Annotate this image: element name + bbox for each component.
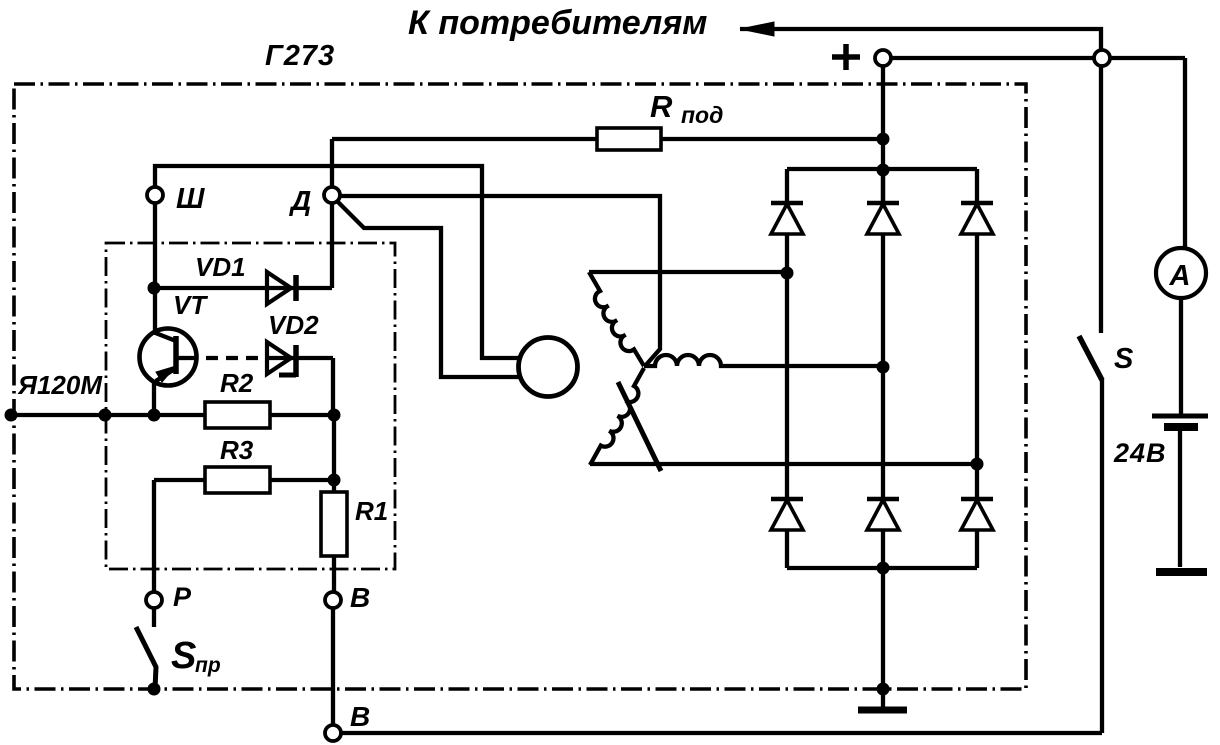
svg-text:под: под — [681, 102, 723, 128]
svg-text:S: S — [171, 635, 196, 677]
svg-text:А: А — [1169, 260, 1191, 292]
svg-text:VT: VT — [173, 290, 208, 320]
svg-text:пр: пр — [195, 654, 221, 677]
svg-text:Я120М: Я120М — [17, 370, 103, 400]
svg-text:В: В — [350, 701, 370, 732]
svg-text:VD1: VD1 — [195, 252, 246, 282]
svg-text:Г273: Г273 — [265, 40, 335, 72]
svg-text:VD2: VD2 — [268, 310, 319, 340]
svg-text:R1: R1 — [355, 496, 388, 526]
svg-text:В: В — [350, 582, 370, 613]
svg-text:24В: 24В — [1113, 438, 1167, 468]
svg-text:R3: R3 — [220, 435, 254, 465]
svg-text:S: S — [1114, 343, 1134, 375]
svg-text:Р: Р — [173, 582, 192, 612]
svg-text:R: R — [650, 89, 673, 124]
svg-text:R2: R2 — [220, 368, 254, 398]
svg-text:К потребителям: К потребителям — [408, 4, 707, 42]
svg-text:Д: Д — [289, 185, 311, 216]
svg-text:Ш: Ш — [176, 183, 205, 215]
